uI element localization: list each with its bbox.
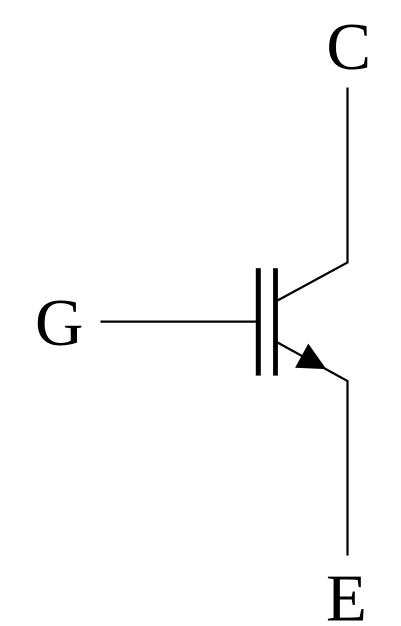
emitter arrow bbox=[295, 344, 326, 370]
collector wire (vertical lead + diagonal to body bar) bbox=[278, 88, 348, 301]
gate wire bbox=[101, 320, 258, 322]
svg-text:G: G bbox=[35, 286, 83, 360]
gate bar (left electrode) bbox=[256, 268, 261, 375]
emitter wire (diagonal from body bar + vertical lead) bbox=[278, 343, 348, 556]
svg-text:E: E bbox=[326, 561, 367, 626]
svg-text:C: C bbox=[326, 10, 371, 84]
body bar (right electrode) bbox=[273, 268, 278, 375]
